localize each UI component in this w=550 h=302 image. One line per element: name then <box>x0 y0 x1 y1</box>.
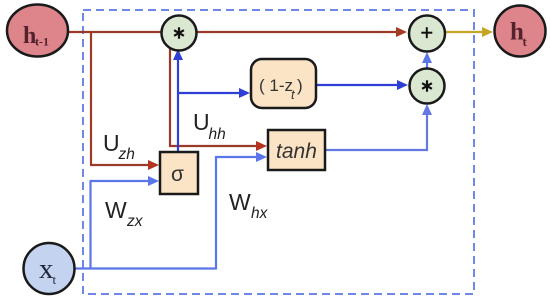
wire x(t) horizontal <box>74 267 216 269</box>
wire branch to (1-z) box <box>177 92 241 94</box>
svg-text:hx: hx <box>251 205 269 222</box>
label U_hh <box>193 109 226 143</box>
node * (multiply, top-left) <box>162 16 197 51</box>
svg-text:W: W <box>105 197 127 223</box>
svg-text:U: U <box>193 109 210 135</box>
wire h(t-1) to + (horizontal, dark red) <box>68 31 399 33</box>
wire (1-z) to second * node <box>316 84 399 86</box>
arrowhead into + node <box>396 27 407 37</box>
node + (add) <box>409 16 445 52</box>
label W_zx <box>105 197 144 230</box>
svg-text:tanh: tanh <box>276 140 317 163</box>
svg-text:): ) <box>297 76 303 95</box>
arrowhead into tanh (blue) <box>256 152 267 162</box>
arrowhead into (1-z) box <box>239 88 250 98</box>
svg-text:zx: zx <box>126 213 144 230</box>
box tanh <box>268 130 325 170</box>
arrowhead into sigma (blue) <box>148 176 159 186</box>
arrowhead up into + node <box>422 52 432 63</box>
wire tanh output right then up to second * <box>325 112 427 150</box>
svg-text:t: t <box>523 34 528 49</box>
arrowhead into second * node <box>397 80 408 90</box>
wire W_zx vertical <box>89 181 91 269</box>
wire U_hh horizontal into tanh <box>169 145 257 147</box>
box (1-z_t) <box>251 59 316 108</box>
svg-text:σ: σ <box>171 163 184 186</box>
arrowhead into h(t) <box>482 27 493 37</box>
dashed cell boundary <box>83 10 474 294</box>
wire U_zh horizontal into sigma <box>90 164 149 166</box>
arrowhead up into second * node <box>422 104 432 115</box>
wire + to h(t), yellow <box>445 31 484 33</box>
node h(t-1) <box>7 5 68 57</box>
node * (multiply, right) <box>410 69 445 104</box>
wire U_zh vertical branch <box>90 31 92 165</box>
label W_hx <box>229 189 269 222</box>
wire W_hx vertical <box>215 157 217 270</box>
svg-text:t-1: t-1 <box>35 35 49 49</box>
svg-text:( 1-z: ( 1-z <box>259 76 293 95</box>
arrowhead into tanh (red) <box>256 141 267 151</box>
wire W_hx horizontal into tanh <box>215 156 257 158</box>
box sigma <box>160 152 198 194</box>
svg-text:hh: hh <box>209 126 226 143</box>
wire W_zx horizontal into sigma <box>90 180 150 182</box>
svg-text:zh: zh <box>118 146 135 163</box>
arrowhead up into * node <box>173 49 183 60</box>
svg-text:t: t <box>53 272 57 287</box>
wire sigma output up to * node <box>177 57 179 153</box>
wire second * up to + node <box>426 61 428 68</box>
node h(t) <box>495 6 546 57</box>
arrowhead into sigma (red) <box>148 160 159 170</box>
wire U_hh vertical branch <box>169 31 171 146</box>
label U_zh <box>103 130 135 163</box>
svg-text:U: U <box>103 130 120 156</box>
node x(t) <box>24 243 75 294</box>
svg-text:W: W <box>229 189 251 215</box>
